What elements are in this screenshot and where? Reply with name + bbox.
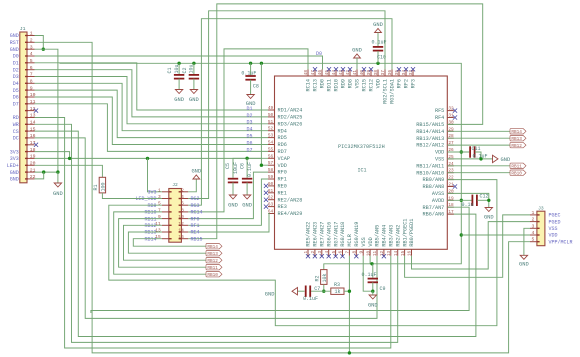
capacitor C12 bbox=[462, 194, 489, 208]
wire J3 VDD bbox=[461, 234, 530, 236]
IC1 left pins bbox=[268, 110, 275, 214]
junction pin21 b bbox=[56, 170, 59, 173]
svg-text:6: 6 bbox=[181, 201, 184, 207]
svg-text:7: 7 bbox=[158, 207, 161, 213]
svg-text:D7: D7 bbox=[13, 102, 19, 108]
wire RB12 to flag bbox=[124, 225, 207, 260]
svg-text:RB10: RB10 bbox=[511, 172, 522, 177]
capacitor C5 bbox=[225, 162, 239, 209]
J2 pin numbers bbox=[155, 187, 184, 240]
svg-text:RST: RST bbox=[10, 40, 19, 46]
ground symbol below J1 bbox=[53, 183, 63, 197]
junction 3V3/C1 bbox=[177, 62, 180, 65]
svg-text:37: 37 bbox=[381, 70, 386, 76]
svg-text:RB10: RB10 bbox=[207, 273, 218, 278]
no-connect IC pin 32 bbox=[453, 109, 457, 113]
wire J1 pin22 GND bbox=[35, 172, 44, 179]
svg-text:VSS: VSS bbox=[361, 237, 367, 246]
svg-text:58: 58 bbox=[268, 168, 274, 173]
svg-text:RD9: RD9 bbox=[341, 79, 347, 88]
svg-text:46: 46 bbox=[318, 70, 323, 76]
svg-text:56: 56 bbox=[268, 154, 274, 159]
svg-text:RG9/AN19: RG9/AN19 bbox=[354, 222, 360, 247]
svg-text:GND: GND bbox=[10, 47, 19, 53]
svg-text:C2: C2 bbox=[182, 67, 188, 73]
svg-text:D4: D4 bbox=[246, 127, 252, 133]
wire D5 bbox=[35, 90, 269, 138]
svg-text:RB2/AN2: RB2/AN2 bbox=[395, 225, 401, 247]
svg-text:RB6/AN6: RB6/AN6 bbox=[423, 212, 445, 218]
svg-text:55: 55 bbox=[268, 147, 274, 152]
svg-text:10k: 10k bbox=[322, 273, 328, 282]
wire R3 right bbox=[344, 290, 349, 292]
svg-text:RG7/AN17: RG7/AN17 bbox=[333, 222, 339, 247]
svg-text:60: 60 bbox=[268, 182, 274, 187]
wire VDD26 bbox=[447, 151, 469, 153]
svg-text:0.1uF: 0.1uF bbox=[241, 71, 256, 77]
svg-text:GND: GND bbox=[519, 261, 529, 267]
svg-text:4: 4 bbox=[181, 194, 184, 200]
svg-text:10u: 10u bbox=[189, 64, 195, 73]
svg-text:RE2/AN28: RE2/AN28 bbox=[278, 197, 303, 203]
wire RD bbox=[35, 118, 391, 349]
wire 3V3 to VDD pin57 bbox=[261, 63, 268, 165]
flag RB14 right bbox=[510, 129, 526, 136]
wire D7 bbox=[35, 104, 269, 152]
wire D6 bbox=[35, 97, 269, 145]
capacitor C11 bbox=[470, 146, 487, 159]
svg-text:RD8: RD8 bbox=[348, 79, 354, 88]
svg-text:59: 59 bbox=[268, 175, 274, 180]
wire D0 bbox=[35, 56, 323, 70]
svg-text:D2: D2 bbox=[13, 67, 19, 73]
no-connect J1 pin 12 bbox=[34, 109, 38, 113]
flag RB13 right bbox=[510, 136, 526, 143]
svg-text:1: 1 bbox=[30, 31, 33, 37]
svg-text:GND: GND bbox=[484, 215, 494, 221]
svg-text:RB11: RB11 bbox=[207, 266, 218, 271]
svg-text:RB13: RB13 bbox=[144, 230, 156, 236]
ground symbol left of C7 bbox=[265, 288, 298, 298]
capacitor C9 bbox=[362, 264, 386, 292]
wire RB11 to flag bbox=[119, 219, 206, 268]
svg-text:VSS: VSS bbox=[549, 226, 558, 232]
svg-text:MCLR: MCLR bbox=[347, 234, 353, 246]
no-connect IC pin 21 bbox=[453, 184, 457, 188]
wire WR bbox=[35, 124, 398, 342]
wire RB15 bbox=[188, 4, 483, 239]
junction 3V3/J3VDD bbox=[460, 233, 463, 236]
resistor R1 bbox=[93, 177, 106, 193]
svg-text:RB1/PGEC1: RB1/PGEC1 bbox=[402, 219, 408, 247]
svg-text:R2: R2 bbox=[314, 275, 320, 281]
svg-text:RF3: RF3 bbox=[411, 79, 417, 88]
svg-text:RB13: RB13 bbox=[207, 252, 218, 257]
svg-text:9: 9 bbox=[158, 214, 161, 220]
IC1 bottom pin names bbox=[306, 219, 416, 247]
svg-text:C6: C6 bbox=[239, 163, 245, 169]
svg-text:RC13: RC13 bbox=[313, 79, 319, 91]
svg-text:3: 3 bbox=[158, 194, 161, 200]
flag RB10 left bbox=[206, 272, 222, 279]
wire D4 bbox=[35, 83, 269, 130]
svg-text:RE7/AN27: RE7/AN27 bbox=[320, 222, 326, 247]
svg-text:1: 1 bbox=[158, 187, 161, 193]
svg-text:D5: D5 bbox=[13, 88, 19, 94]
svg-text:51: 51 bbox=[268, 120, 274, 125]
flag RB10 right bbox=[510, 170, 526, 177]
junction VCAP/C6 bbox=[245, 157, 248, 160]
wire J2 pin2 GND bbox=[188, 179, 196, 192]
svg-text:RB4/AN4: RB4/AN4 bbox=[382, 225, 388, 247]
svg-text:RB11: RB11 bbox=[511, 165, 522, 170]
svg-text:RB10: RB10 bbox=[144, 210, 156, 216]
junction VDD57 bbox=[260, 164, 263, 167]
wire J1 pin3 GND bbox=[35, 49, 58, 172]
svg-text:GND: GND bbox=[189, 97, 199, 103]
svg-text:D4: D4 bbox=[13, 81, 19, 87]
J2 pin labels bbox=[135, 190, 202, 243]
wire pin24 to flag bbox=[447, 165, 510, 167]
wire RG2 bbox=[188, 11, 385, 199]
svg-text:RB14: RB14 bbox=[144, 236, 156, 242]
svg-text:GND: GND bbox=[501, 157, 511, 163]
svg-text:RB15: RB15 bbox=[191, 236, 203, 242]
capacitor C2 bbox=[182, 63, 199, 103]
wire AVSS20 bbox=[447, 193, 489, 207]
svg-text:D6: D6 bbox=[13, 95, 19, 101]
junction 3V3/AVDD19 bbox=[460, 199, 463, 202]
wire RB9 bbox=[109, 180, 497, 326]
junction 3V3 J2pin1 bbox=[146, 157, 149, 160]
svg-text:RB0/PGED1: RB0/PGED1 bbox=[409, 219, 415, 247]
wire RST bbox=[35, 42, 531, 353]
svg-text:RF5: RF5 bbox=[435, 108, 444, 114]
svg-text:RB7/AN7: RB7/AN7 bbox=[423, 205, 445, 211]
svg-text:GND: GND bbox=[191, 169, 201, 175]
svg-text:2: 2 bbox=[532, 217, 535, 223]
svg-text:1: 1 bbox=[532, 210, 535, 216]
IC1 bottom pins bbox=[308, 249, 412, 256]
svg-text:4: 4 bbox=[30, 51, 33, 57]
svg-text:RF1: RF1 bbox=[278, 177, 287, 183]
svg-text:3V3: 3V3 bbox=[10, 156, 19, 162]
svg-text:62: 62 bbox=[268, 196, 274, 201]
svg-text:RD1/AN24: RD1/AN24 bbox=[278, 108, 303, 114]
svg-text:RG6/AN16: RG6/AN16 bbox=[326, 222, 332, 247]
svg-text:8: 8 bbox=[30, 79, 33, 85]
wire J1 pin21 GND bbox=[35, 171, 58, 173]
svg-text:VDD: VDD bbox=[435, 150, 444, 156]
svg-text:54: 54 bbox=[268, 141, 274, 146]
wire RB14 to flag bbox=[133, 239, 206, 247]
junction pin21 a bbox=[42, 170, 45, 173]
svg-text:RF0: RF0 bbox=[191, 216, 200, 222]
svg-text:RG3: RG3 bbox=[191, 203, 200, 209]
wire D2 bbox=[35, 70, 269, 117]
svg-text:RD7: RD7 bbox=[278, 149, 287, 155]
svg-text:D0: D0 bbox=[13, 54, 19, 60]
IC1 right pin numbers bbox=[448, 107, 454, 216]
svg-text:GND: GND bbox=[246, 101, 256, 107]
svg-text:RB12: RB12 bbox=[144, 223, 156, 229]
svg-text:16: 16 bbox=[408, 250, 413, 256]
svg-text:C9: C9 bbox=[380, 286, 386, 292]
wire R2 bottom bbox=[323, 284, 325, 291]
wire RB10 to flag bbox=[114, 212, 206, 274]
svg-text:61: 61 bbox=[268, 189, 274, 194]
svg-text:12: 12 bbox=[30, 106, 36, 112]
junction C9 GND bbox=[371, 290, 374, 293]
wire MCLR pin7 bbox=[348, 256, 350, 291]
svg-text:RB14: RB14 bbox=[511, 130, 522, 135]
wire VSS pin9 bbox=[363, 256, 373, 291]
svg-text:100: 100 bbox=[101, 182, 107, 191]
svg-text:10: 10 bbox=[366, 250, 371, 256]
svg-text:5: 5 bbox=[332, 250, 337, 253]
svg-text:RD2/AN25: RD2/AN25 bbox=[278, 115, 303, 121]
svg-text:2: 2 bbox=[311, 250, 316, 253]
svg-text:50: 50 bbox=[268, 113, 274, 118]
svg-text:RD11: RD11 bbox=[327, 79, 333, 91]
svg-text:RB14/AN14: RB14/AN14 bbox=[416, 129, 444, 135]
IC1 left pin names bbox=[278, 108, 303, 218]
svg-text:52: 52 bbox=[268, 127, 274, 132]
svg-text:17: 17 bbox=[30, 140, 36, 146]
svg-text:3: 3 bbox=[30, 44, 33, 50]
svg-text:C1: C1 bbox=[167, 67, 173, 73]
svg-text:D7: D7 bbox=[246, 147, 252, 153]
svg-text:D3: D3 bbox=[13, 74, 19, 80]
svg-text:8: 8 bbox=[353, 250, 358, 253]
ground symbol right of pin25 bbox=[493, 155, 511, 163]
wire D3 bbox=[35, 77, 269, 124]
svg-text:41: 41 bbox=[353, 70, 358, 76]
IC1 top pin numbers bbox=[304, 70, 414, 76]
svg-text:VCAP: VCAP bbox=[278, 156, 290, 162]
capacitor C8 bbox=[241, 63, 259, 107]
svg-text:RE0: RE0 bbox=[278, 184, 287, 190]
wire VSS25 bbox=[447, 158, 492, 160]
svg-text:C8: C8 bbox=[253, 84, 259, 90]
svg-text:2: 2 bbox=[181, 187, 184, 193]
svg-text:0.1uF: 0.1uF bbox=[303, 296, 318, 302]
svg-text:C5: C5 bbox=[225, 163, 231, 169]
svg-text:R3: R3 bbox=[334, 282, 340, 288]
svg-text:11: 11 bbox=[373, 250, 378, 256]
wire AVDD19 bbox=[447, 199, 471, 201]
svg-text:6: 6 bbox=[339, 250, 344, 253]
svg-text:4: 4 bbox=[532, 230, 535, 236]
svg-text:J1: J1 bbox=[20, 26, 26, 32]
svg-text:GND: GND bbox=[53, 191, 63, 197]
svg-text:RB10/AN10: RB10/AN10 bbox=[416, 170, 444, 176]
wire J3 VSS GND bbox=[524, 228, 530, 255]
svg-text:63: 63 bbox=[268, 203, 274, 208]
junction MCLR/RST bbox=[348, 351, 351, 354]
svg-text:GND: GND bbox=[174, 97, 184, 103]
svg-text:RD6: RD6 bbox=[278, 142, 287, 148]
svg-text:GND: GND bbox=[10, 33, 19, 39]
svg-text:0.1uF: 0.1uF bbox=[362, 272, 377, 278]
svg-text:RF4: RF4 bbox=[435, 115, 444, 121]
junction C12/AVSS bbox=[487, 199, 490, 202]
svg-text:RB15/AN15: RB15/AN15 bbox=[416, 122, 444, 128]
svg-text:RG3/SDA1: RG3/SDA1 bbox=[390, 79, 396, 104]
svg-text:RE6/AN23: RE6/AN23 bbox=[313, 222, 319, 247]
wire pin28 to flag bbox=[447, 137, 510, 139]
junction 3V3 pin18 bbox=[68, 157, 71, 160]
svg-text:RD: RD bbox=[13, 115, 19, 121]
wire GND stem bbox=[57, 172, 59, 183]
svg-text:RB12/AN12: RB12/AN12 bbox=[416, 143, 444, 149]
ground symbol below C9 bbox=[368, 291, 378, 308]
svg-text:10: 10 bbox=[178, 214, 184, 220]
svg-text:10uF: 10uF bbox=[233, 162, 239, 174]
svg-text:14: 14 bbox=[178, 228, 184, 234]
svg-text:RB9/AN9: RB9/AN9 bbox=[423, 177, 445, 183]
svg-text:10u: 10u bbox=[174, 64, 180, 73]
svg-text:RB12: RB12 bbox=[511, 144, 522, 149]
capacitor C1 bbox=[167, 63, 184, 103]
wire 3V3 to J2 pin1 bbox=[148, 158, 163, 191]
flag RB11 right bbox=[510, 163, 526, 170]
IC1 name bbox=[338, 144, 385, 150]
svg-text:GND: GND bbox=[265, 292, 275, 298]
svg-text:VDD: VDD bbox=[368, 237, 374, 246]
svg-text:RC14: RC14 bbox=[306, 79, 312, 91]
svg-text:GND: GND bbox=[242, 203, 252, 209]
svg-text:RB9: RB9 bbox=[147, 203, 156, 209]
svg-text:RC14: RC14 bbox=[191, 210, 203, 216]
no-connect J1 pin 17 bbox=[34, 143, 38, 147]
svg-text:57: 57 bbox=[268, 161, 274, 166]
wire VDD rail bbox=[324, 263, 373, 265]
svg-text:0.1u: 0.1u bbox=[462, 202, 474, 208]
wire pin23 to flag bbox=[447, 172, 510, 174]
svg-text:VPP/MCLR: VPP/MCLR bbox=[549, 239, 573, 245]
svg-text:D2: D2 bbox=[246, 113, 252, 119]
svg-text:AVDD: AVDD bbox=[432, 198, 444, 204]
svg-text:J3: J3 bbox=[538, 205, 544, 211]
wire pin29 to flag bbox=[447, 130, 510, 132]
svg-text:8: 8 bbox=[181, 207, 184, 213]
svg-text:RC15: RC15 bbox=[362, 79, 368, 91]
svg-text:0.1uF: 0.1uF bbox=[247, 162, 253, 177]
svg-text:4: 4 bbox=[325, 250, 330, 253]
svg-text:48: 48 bbox=[304, 70, 309, 76]
wire 3V3 top rail bbox=[60, 63, 462, 263]
svg-text:RG2: RG2 bbox=[191, 196, 200, 202]
svg-text:3: 3 bbox=[318, 250, 323, 253]
svg-text:RB11/AN11: RB11/AN11 bbox=[416, 163, 444, 169]
no-connect IC top pins bbox=[313, 67, 415, 71]
svg-text:RD0: RD0 bbox=[320, 79, 326, 88]
capacitor C10 bbox=[371, 22, 386, 63]
wire CS bbox=[35, 131, 476, 336]
junction 3V3/VDD26 bbox=[460, 150, 463, 153]
flag RB11 left bbox=[206, 265, 222, 272]
ground symbol below J3 bbox=[519, 255, 529, 267]
connector J1 bbox=[20, 26, 35, 183]
ground symbol VSS top bbox=[352, 48, 362, 70]
svg-text:VDD: VDD bbox=[549, 233, 558, 239]
svg-text:3V3: 3V3 bbox=[147, 190, 156, 196]
no-connect IC left pins RE0-RE3 bbox=[264, 184, 268, 209]
svg-text:PGED: PGED bbox=[549, 219, 561, 225]
flag RB14 left bbox=[206, 244, 222, 251]
wire RG3 bbox=[188, 19, 392, 206]
ground symbol below C12 bbox=[484, 208, 494, 221]
wire VCAP bbox=[233, 158, 268, 178]
svg-text:53: 53 bbox=[268, 134, 274, 139]
svg-text:WR: WR bbox=[13, 122, 19, 128]
svg-text:RB5/AN5: RB5/AN5 bbox=[375, 225, 381, 247]
wire LED+ bbox=[35, 165, 103, 177]
wire R2 top to VDD rail bbox=[323, 263, 325, 265]
svg-text:RB12: RB12 bbox=[207, 259, 218, 264]
net label D0 bbox=[316, 51, 322, 57]
svg-text:RD4: RD4 bbox=[278, 128, 287, 134]
svg-text:J2: J2 bbox=[172, 182, 178, 188]
J3 pin numbers bbox=[532, 210, 535, 243]
wire R3 left bbox=[311, 290, 331, 292]
svg-text:RB14: RB14 bbox=[207, 245, 218, 250]
wire RB7 bbox=[91, 207, 469, 313]
wire MCLR drop bbox=[348, 291, 350, 353]
svg-text:2: 2 bbox=[30, 38, 33, 44]
svg-text:15: 15 bbox=[401, 250, 406, 256]
svg-text:36: 36 bbox=[388, 70, 393, 76]
junction pin1/pin3 bbox=[42, 48, 45, 51]
svg-text:5: 5 bbox=[532, 237, 535, 243]
svg-text:CS: CS bbox=[13, 129, 19, 135]
ground symbol above J2 bbox=[191, 169, 201, 180]
flag RB12 left bbox=[206, 258, 222, 265]
svg-text:C7: C7 bbox=[314, 286, 320, 292]
IC1 bottom pin numbers bbox=[304, 250, 413, 256]
wire R1 to LED_VDD bbox=[102, 193, 162, 199]
svg-text:1: 1 bbox=[304, 250, 309, 253]
svg-text:5: 5 bbox=[30, 58, 33, 64]
svg-text:GND: GND bbox=[352, 48, 362, 54]
svg-text:RD3/AN26: RD3/AN26 bbox=[278, 121, 303, 127]
svg-text:14: 14 bbox=[394, 250, 399, 256]
svg-text:VSS: VSS bbox=[355, 79, 361, 88]
wire DC bbox=[35, 138, 378, 319]
svg-text:RF1: RF1 bbox=[191, 223, 200, 229]
wire C7 to GND bbox=[298, 290, 305, 292]
svg-text:RF6: RF6 bbox=[397, 79, 403, 88]
svg-text:1k: 1k bbox=[335, 289, 341, 295]
wire RB13 to flag bbox=[128, 232, 206, 253]
svg-text:3V3: 3V3 bbox=[10, 149, 19, 155]
svg-text:17: 17 bbox=[448, 210, 454, 215]
capacitor C6 bbox=[239, 158, 253, 208]
IC1 refdes bbox=[357, 168, 366, 174]
svg-text:C11: C11 bbox=[472, 146, 481, 152]
no-connect IC bottom pins bbox=[306, 254, 386, 258]
wire RE4 bbox=[188, 214, 269, 233]
svg-text:PGEC: PGEC bbox=[549, 213, 561, 219]
svg-text:RD5: RD5 bbox=[278, 135, 287, 141]
svg-text:RB13: RB13 bbox=[511, 137, 522, 142]
svg-text:LED_VDD: LED_VDD bbox=[135, 196, 156, 202]
svg-text:GND: GND bbox=[10, 170, 19, 176]
junction 3V3/C2 bbox=[192, 62, 195, 65]
capacitor C7 bbox=[303, 286, 320, 303]
svg-text:PIC32MX370F512H: PIC32MX370F512H bbox=[338, 144, 385, 150]
